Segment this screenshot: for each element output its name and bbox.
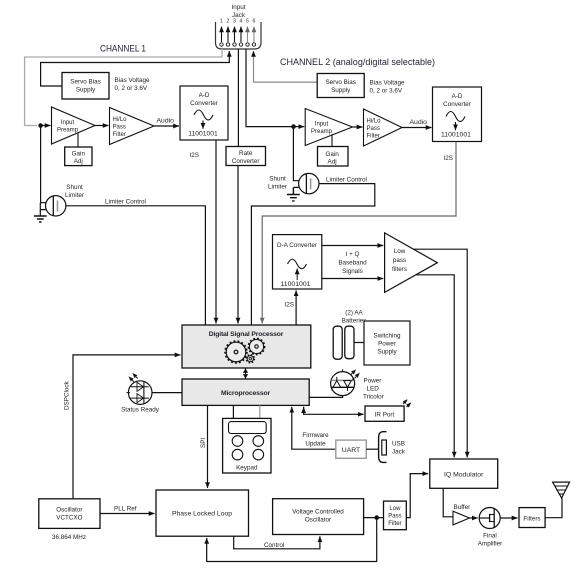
svg-text:Oscillator: Oscillator bbox=[305, 517, 331, 524]
svg-text:LED: LED bbox=[367, 386, 380, 393]
svg-text:Shunt: Shunt bbox=[269, 176, 286, 183]
amplifier Buffer bbox=[453, 504, 470, 525]
block Keypad bbox=[223, 418, 271, 473]
svg-text:filters: filters bbox=[392, 266, 407, 273]
antenna AN1 bbox=[553, 482, 570, 498]
svg-text:Supply: Supply bbox=[331, 87, 351, 94]
svg-text:Filter: Filter bbox=[367, 134, 380, 140]
block Digital Signal Processor U1 bbox=[182, 325, 311, 368]
svg-text:0, 2 or 3.6V: 0, 2 or 3.6V bbox=[115, 85, 148, 92]
svg-text:Audio: Audio bbox=[410, 119, 428, 126]
svg-text:Limiter Control: Limiter Control bbox=[105, 199, 146, 206]
battery B1 (2) AA bbox=[333, 310, 366, 360]
label Shunt Limiter CH1 bbox=[65, 184, 84, 199]
svg-text:Baseband: Baseband bbox=[338, 260, 367, 267]
svg-text:Tricolor: Tricolor bbox=[363, 394, 384, 401]
svg-text:Bias Voltage: Bias Voltage bbox=[115, 77, 151, 84]
svg-text:4: 4 bbox=[240, 19, 243, 25]
label CHANNEL 2 bbox=[280, 57, 435, 68]
wire Audio CH1 to A-D bbox=[154, 118, 179, 127]
svg-text:Converter: Converter bbox=[443, 101, 471, 108]
block Servo Bias Supply CH1 bbox=[62, 73, 109, 100]
block D-A Converter bbox=[273, 235, 322, 289]
wire status LED to microprocessor bbox=[152, 392, 182, 394]
filter Low pass filters bbox=[385, 233, 438, 293]
svg-text:IR Port: IR Port bbox=[375, 412, 395, 419]
svg-text:Gain: Gain bbox=[325, 151, 339, 158]
svg-text:SPI: SPI bbox=[200, 438, 207, 448]
svg-text:Servo Bias: Servo Bias bbox=[325, 79, 355, 86]
filter Hi/Lo Pass Filter CH1 bbox=[110, 108, 155, 145]
svg-text:Limiter Control: Limiter Control bbox=[326, 176, 367, 183]
block Low Pass Filter bbox=[384, 501, 407, 530]
wire IQ modulator to buffer bbox=[443, 488, 452, 517]
svg-text:Pass: Pass bbox=[367, 126, 380, 132]
svg-text:USB: USB bbox=[392, 441, 405, 448]
svg-text:UART: UART bbox=[342, 447, 360, 454]
wire feedback VCO to PLL bbox=[207, 518, 377, 562]
wire DSP-microprocessor bidirectional bbox=[243, 368, 248, 378]
svg-text:(2) AA: (2) AA bbox=[345, 310, 363, 317]
transistor Q1 Final Amplifier bbox=[479, 508, 500, 529]
label CHANNEL 1 bbox=[100, 44, 146, 55]
svg-text:A-D: A-D bbox=[452, 93, 463, 100]
svg-text:Power: Power bbox=[378, 341, 396, 348]
svg-text:CHANNEL 2 (analog/digital sele: CHANNEL 2 (analog/digital selectable) bbox=[280, 57, 435, 68]
LED D2 Power LED Tricolor bbox=[331, 369, 360, 395]
wire CH2 audio input jack to CH2 node bbox=[246, 49, 292, 127]
block Microprocessor U2 bbox=[182, 379, 309, 405]
svg-text:Buffer: Buffer bbox=[454, 504, 471, 511]
wire Limiter Control CH2 to DSP bbox=[251, 176, 374, 324]
svg-text:Limiter: Limiter bbox=[268, 184, 287, 191]
svg-text:Status Ready: Status Ready bbox=[121, 407, 160, 414]
icon gear large bbox=[225, 341, 247, 363]
svg-text:Voltage Controlled: Voltage Controlled bbox=[292, 509, 344, 516]
svg-text:pass: pass bbox=[393, 257, 406, 264]
amplifier Input Preamp CH1 bbox=[52, 107, 96, 144]
oscillator X1 VCTCXO bbox=[39, 499, 100, 529]
svg-text:Converter: Converter bbox=[232, 158, 260, 165]
wire preamp to gain adj CH1 bbox=[77, 133, 79, 147]
svg-text:Adj: Adj bbox=[74, 158, 83, 165]
block Gain Adj CH2 bbox=[318, 147, 349, 167]
svg-text:DSPClock: DSPClock bbox=[64, 380, 71, 410]
svg-text:Hi/Lo: Hi/Lo bbox=[367, 119, 382, 125]
wire rate converter to DSP bbox=[237, 166, 239, 324]
svg-text:Control: Control bbox=[264, 542, 284, 549]
transistor shunt limiter CH2 bbox=[299, 173, 319, 193]
wire low pass filter to IQ modulator bbox=[406, 474, 428, 518]
svg-text:Filter: Filter bbox=[113, 132, 126, 138]
wire D-A I output to low pass filters bbox=[322, 245, 384, 247]
connector USB Jack bbox=[379, 432, 387, 463]
svg-text:Input: Input bbox=[61, 120, 75, 126]
pin 2 bbox=[226, 27, 229, 47]
wire CH2 node down to shunt limiter bbox=[293, 128, 298, 187]
svg-text:Microprocessor: Microprocessor bbox=[221, 390, 270, 397]
svg-text:Adj: Adj bbox=[328, 159, 337, 166]
wire final amplifier to filters bbox=[500, 517, 517, 519]
svg-text:Low: Low bbox=[394, 248, 406, 255]
icon gear small bbox=[249, 339, 265, 355]
wire microprocessor to IR port bbox=[304, 407, 364, 415]
label SPI (rotated) bbox=[200, 438, 207, 448]
svg-text:I + Q: I + Q bbox=[346, 251, 360, 258]
block Servo Bias Supply CH2 bbox=[317, 74, 364, 98]
svg-text:Preamp: Preamp bbox=[311, 129, 333, 135]
svg-text:Jack: Jack bbox=[392, 449, 406, 456]
label Power LED Tricolor bbox=[363, 378, 384, 401]
wire microprocessor to power LED bbox=[309, 395, 342, 397]
svg-text:Bias Voltage: Bias Voltage bbox=[370, 80, 406, 87]
svg-text:I2S: I2S bbox=[285, 302, 294, 309]
svg-text:Batteries: Batteries bbox=[342, 318, 367, 325]
ground CH1 bbox=[34, 216, 47, 222]
svg-text:Digital Signal Processor: Digital Signal Processor bbox=[209, 331, 284, 338]
block UART bbox=[336, 440, 367, 458]
svg-text:Switching: Switching bbox=[374, 333, 401, 340]
block Voltage Controlled Oscillator bbox=[273, 499, 364, 535]
svg-text:Audio: Audio bbox=[157, 118, 175, 125]
wire VCO to low pass filter bbox=[364, 517, 384, 519]
label DSPClock (rotated) bbox=[64, 380, 71, 410]
svg-text:Input: Input bbox=[315, 122, 329, 128]
wire low pass filters lower output to IQ modulator bbox=[416, 275, 454, 458]
svg-text:Firmware: Firmware bbox=[302, 432, 329, 439]
wire UART to USB jack bbox=[366, 448, 378, 450]
pin 6 bbox=[252, 27, 255, 47]
block Rate Converter bbox=[226, 147, 266, 166]
svg-text:IQ Modulator: IQ Modulator bbox=[444, 472, 484, 479]
svg-text:VCTCXO: VCTCXO bbox=[56, 515, 82, 522]
svg-text:11001001: 11001001 bbox=[281, 281, 311, 288]
svg-text:Filter: Filter bbox=[388, 521, 401, 527]
wire CH1 node to preamp arrow bbox=[42, 125, 51, 127]
wire CH1 node down to shunt limiter bbox=[41, 127, 46, 203]
pin 5 bbox=[246, 27, 249, 47]
svg-text:Filters: Filters bbox=[523, 516, 540, 523]
wire CH1 bias: servo bias supply to jack pin2 bbox=[41, 51, 230, 86]
wire batteries to switching power supply bbox=[354, 342, 364, 344]
wire Control PLL to VCO bbox=[234, 536, 320, 549]
icon gear tiny bbox=[246, 355, 254, 363]
svg-text:1: 1 bbox=[220, 19, 223, 25]
label I + Q Baseband Signals bbox=[338, 251, 367, 275]
svg-text:Input: Input bbox=[231, 4, 245, 11]
wire CH1 audio input (gray) jack pin1 to preamp node bbox=[25, 49, 222, 126]
svg-text:6: 6 bbox=[253, 19, 256, 25]
wire shunt limiter lower stub CH1 bbox=[40, 203, 46, 216]
wire preamp to filter CH1 bbox=[95, 125, 109, 127]
wire D-A Q output to low pass filters bbox=[322, 278, 384, 280]
svg-text:11001001: 11001001 bbox=[188, 131, 218, 138]
wire low pass filters upper output to IQ modulator bbox=[414, 249, 468, 457]
wire CH2 bias (gray): servo bias supply 2 to jack pin6 bbox=[254, 51, 318, 82]
svg-text:Signals: Signals bbox=[342, 268, 363, 275]
svg-text:5: 5 bbox=[246, 19, 249, 25]
svg-text:Pass: Pass bbox=[388, 514, 401, 520]
wire PLL Ref oscillator to PLL bbox=[100, 506, 155, 514]
wire preamp to gain adj CH2 bbox=[331, 134, 333, 147]
label Shunt Limiter CH2 bbox=[268, 176, 287, 191]
wire CH2 node to preamp arrow bbox=[295, 126, 304, 128]
svg-text:2: 2 bbox=[227, 19, 230, 25]
svg-text:Final: Final bbox=[483, 533, 497, 540]
svg-text:Shunt: Shunt bbox=[66, 184, 83, 191]
wire digital input jack pin3/4 to rate converter bbox=[237, 49, 239, 147]
label Status Ready bbox=[121, 407, 160, 414]
svg-text:D-A Converter: D-A Converter bbox=[277, 242, 317, 249]
svg-text:Low: Low bbox=[389, 506, 401, 512]
wire Limiter Control CH1 to DSP bbox=[66, 199, 206, 325]
wire SPI microprocessor to PLL bbox=[207, 405, 209, 488]
transistor shunt limiter CH1 bbox=[46, 196, 66, 216]
value label Bias Voltage CH1 bbox=[115, 77, 151, 92]
svg-text:0, 2 or 3.6V: 0, 2 or 3.6V bbox=[370, 88, 403, 95]
amplifier Input Preamp CH2 bbox=[305, 109, 352, 146]
pin 3 bbox=[233, 27, 236, 47]
svg-text:3: 3 bbox=[233, 19, 236, 25]
block IR Port bbox=[365, 400, 411, 422]
connector J1 Input Jack bbox=[216, 4, 262, 49]
wire buffer to final amplifier bbox=[470, 517, 478, 519]
block Filters bbox=[519, 508, 545, 528]
node C VCO output junction bbox=[374, 515, 379, 520]
wire I2S CH2 A-D to DSP (gray) bbox=[262, 142, 456, 324]
wire preamp to filter CH2 bbox=[353, 126, 363, 128]
block Switching Power Supply bbox=[364, 321, 410, 365]
pin 1 bbox=[220, 27, 223, 47]
wire filters to antenna bbox=[545, 498, 562, 518]
svg-text:Phase Locked Loop: Phase Locked Loop bbox=[172, 511, 232, 518]
svg-text:PLL Ref: PLL Ref bbox=[114, 506, 137, 513]
svg-text:11001001: 11001001 bbox=[441, 132, 471, 139]
wire Audio CH2 to A-D bbox=[402, 119, 432, 128]
node A CH1 input junction bbox=[38, 123, 43, 128]
svg-text:Supply: Supply bbox=[76, 87, 96, 94]
svg-text:Converter: Converter bbox=[190, 100, 218, 107]
wire microprocessor to keypad left bbox=[232, 405, 234, 418]
label I2S CH2 bbox=[444, 155, 453, 162]
label Firmware Update bbox=[302, 432, 329, 448]
svg-text:I2S: I2S bbox=[190, 152, 199, 159]
svg-text:Servo Bias: Servo Bias bbox=[70, 79, 100, 86]
wire microprocessor to keypad right (gray) bbox=[259, 405, 261, 418]
LED D1 Status Ready bbox=[127, 373, 153, 404]
wire UART to microprocessor bbox=[292, 407, 336, 449]
svg-text:Keypad: Keypad bbox=[236, 465, 258, 472]
wire DSP to D-A (I2S, up arrow) bbox=[295, 290, 297, 325]
pin 4 bbox=[239, 27, 242, 47]
svg-text:Power: Power bbox=[364, 378, 382, 385]
block Gain Adj CH1 bbox=[65, 147, 92, 166]
svg-text:Limiter: Limiter bbox=[65, 192, 84, 199]
svg-text:Pass: Pass bbox=[113, 125, 126, 131]
node B CH2 input junction bbox=[291, 124, 296, 129]
svg-text:I2S: I2S bbox=[444, 155, 453, 162]
svg-text:Rate: Rate bbox=[239, 150, 253, 157]
filter Hi/Lo Pass Filter CH2 bbox=[364, 109, 403, 146]
ground CH2 bbox=[287, 187, 300, 201]
svg-text:Preamp: Preamp bbox=[57, 128, 79, 134]
svg-text:Oscillator: Oscillator bbox=[56, 507, 82, 514]
svg-text:Hi/Lo: Hi/Lo bbox=[113, 117, 128, 123]
block A-D Converter CH2 bbox=[433, 87, 482, 142]
block IQ Modulator bbox=[430, 459, 498, 488]
wire I2S CH1 A-D to DSP bbox=[215, 140, 217, 324]
label USB Jack bbox=[392, 441, 406, 456]
block Phase Locked Loop bbox=[156, 490, 249, 536]
value label Bias Voltage CH2 bbox=[370, 80, 406, 95]
svg-text:Update: Update bbox=[305, 441, 326, 448]
svg-text:CHANNEL 1: CHANNEL 1 bbox=[100, 44, 146, 55]
block A-D Converter CH1 bbox=[180, 86, 228, 140]
svg-text:Amplifier: Amplifier bbox=[478, 541, 503, 548]
svg-text:Gain: Gain bbox=[72, 151, 86, 158]
svg-text:36.864 MHz: 36.864 MHz bbox=[52, 534, 86, 541]
svg-text:Supply: Supply bbox=[377, 349, 397, 356]
wire DSPClock oscillator to DSP bbox=[73, 355, 181, 499]
label Final Amplifier bbox=[478, 533, 503, 548]
value label 36.864 MHz bbox=[52, 534, 86, 541]
label I2S CH1 bbox=[190, 152, 199, 159]
label I2S D-A bbox=[285, 302, 294, 309]
svg-text:A-D: A-D bbox=[199, 92, 210, 99]
